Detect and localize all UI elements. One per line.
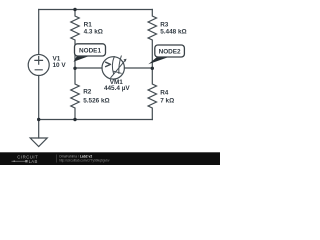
svg-text:http://circuitlab.com/c7Ty99kq: http://circuitlab.com/c7Ty99kq6gvbv <box>59 158 110 162</box>
svg-text:4.3 kΩ: 4.3 kΩ <box>84 29 103 36</box>
svg-text:NODE2: NODE2 <box>159 49 181 56</box>
svg-text:5.526 kΩ: 5.526 kΩ <box>83 98 109 105</box>
svg-text:R3: R3 <box>160 21 169 28</box>
svg-text:R2: R2 <box>83 88 92 95</box>
svg-text:10 V: 10 V <box>53 62 67 69</box>
svg-text:LAB: LAB <box>29 159 38 164</box>
svg-text:445.4 µV: 445.4 µV <box>104 85 130 92</box>
svg-text:NODE1: NODE1 <box>79 47 101 54</box>
svg-text:R4: R4 <box>160 90 169 97</box>
svg-text:7 kΩ: 7 kΩ <box>160 98 174 105</box>
svg-text:5.448 kΩ: 5.448 kΩ <box>160 29 186 36</box>
svg-text:R1: R1 <box>84 21 93 28</box>
